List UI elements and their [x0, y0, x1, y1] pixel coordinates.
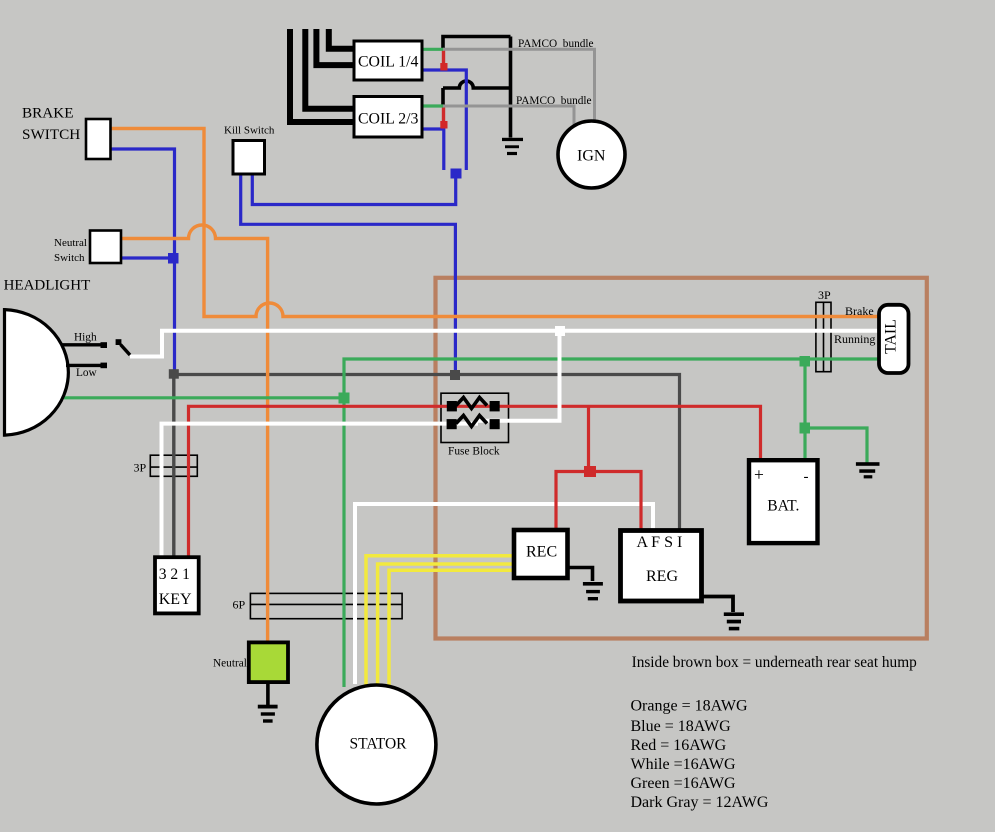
brown box (rear seat hump) — [436, 278, 927, 639]
black wire coil2 junction to ground rail (with hump over blue) — [443, 81, 511, 106]
wire yellow 3 — [389, 570, 515, 686]
connector 3P (key) — [150, 455, 197, 476]
coil 2/3 box — [354, 97, 422, 138]
junction white — [555, 326, 565, 336]
wire blue coil1 — [422, 70, 466, 170]
svg-text:BAT.: BAT. — [767, 497, 799, 514]
svg-text:Green =16AWG: Green =16AWG — [631, 775, 736, 792]
wire white headlight switch to tail — [130, 331, 878, 357]
svg-text:Dark Gray = 12AWG: Dark Gray = 12AWG — [631, 794, 769, 811]
REG ground — [701, 597, 734, 613]
wire dark gray down to key — [172, 375, 175, 559]
IGN circle — [558, 121, 625, 188]
junction dark gray (headlight) — [169, 369, 179, 379]
junction red stub coil2 — [440, 121, 447, 129]
svg-text:3P: 3P — [134, 461, 147, 475]
svg-text:REC: REC — [526, 543, 557, 560]
wire blue kill switch left pin down — [241, 174, 456, 372]
wire orange brake switch long (hump over neutral vertical) — [110, 129, 878, 317]
svg-text:+: + — [754, 465, 764, 485]
svg-text:High: High — [74, 332, 97, 344]
headlight high pin — [62, 343, 101, 346]
red stub coil2 — [442, 107, 445, 122]
svg-text:BRAKE: BRAKE — [22, 105, 73, 122]
svg-text:COIL 1/4: COIL 1/4 — [358, 54, 419, 71]
svg-text:Blue = 18AWG: Blue = 18AWG — [631, 718, 732, 735]
fuse block internals — [447, 398, 500, 430]
wire dark gray horizontal (headlight to AFSI) — [174, 375, 680, 532]
wire green tail branch down to battery — [803, 359, 806, 461]
Neutral green box — [249, 642, 288, 682]
svg-text:COIL 2/3: COIL 2/3 — [358, 111, 419, 128]
STATOR circle — [317, 685, 436, 804]
wire blue neutral switch — [121, 256, 170, 259]
brake switch box — [86, 119, 111, 159]
svg-text:SWITCH: SWITCH — [22, 126, 80, 143]
svg-text:Low: Low — [76, 367, 98, 379]
black coil feed wire 4 (to coil 1/4 upper) — [329, 29, 354, 49]
svg-text:Red = 16AWG: Red = 16AWG — [631, 737, 727, 754]
wire green coil2 stub — [422, 104, 444, 107]
svg-text:Kill Switch: Kill Switch — [224, 125, 275, 137]
junction green (ground branch) — [800, 423, 811, 434]
red stub coil1 — [442, 50, 445, 64]
svg-text:PAMCO bundle: PAMCO bundle — [518, 38, 594, 50]
neutral switch box — [90, 231, 121, 264]
svg-text:Inside brown box = underneath: Inside brown box = underneath rear seat … — [632, 654, 918, 671]
svg-text:Fuse Block: Fuse Block — [448, 446, 500, 458]
AFSI REG box — [621, 531, 702, 602]
junction blue (brake/neutral) — [168, 253, 179, 264]
wire blue junction to kill switch right pin — [252, 174, 455, 205]
wire red junction to REG — [594, 472, 641, 532]
wire gray pamco 1 — [443, 49, 595, 122]
svg-text:PAMCO bundle: PAMCO bundle — [516, 95, 592, 107]
ground (coils) — [502, 138, 523, 155]
junction green (tail) — [800, 356, 811, 367]
REC ground — [568, 568, 593, 582]
connector 3P (tail) — [816, 302, 831, 371]
svg-text:KEY: KEY — [159, 591, 192, 608]
svg-text:Running: Running — [834, 332, 875, 346]
svg-text:IGN: IGN — [577, 148, 606, 165]
svg-text:3P: 3P — [818, 288, 831, 302]
svg-text:TAIL: TAIL — [883, 319, 900, 354]
wire green down to stator — [342, 398, 345, 687]
neutral box ground — [266, 683, 270, 706]
svg-text:6P: 6P — [233, 598, 246, 612]
headlight low pin — [66, 364, 101, 367]
junction red (REC/REG) — [584, 466, 596, 477]
wire orange neutral switch (hump over brake vertical) — [121, 225, 268, 643]
black coil feed wire 2 (to coil 2/3 upper) — [305, 29, 354, 109]
wire white stator to REG — [355, 504, 653, 684]
wire white junction drop to fuse block — [478, 333, 560, 421]
black ground rail vertical — [509, 37, 513, 138]
BAT box — [749, 460, 818, 543]
headlight shape — [5, 310, 69, 436]
black coil feed wire 3 (to coil 1/4 lower) — [316, 29, 354, 65]
coil 1/4 box — [354, 41, 422, 80]
svg-text:Switch: Switch — [54, 252, 85, 264]
KEY box — [155, 557, 199, 613]
connector 6P — [250, 593, 402, 618]
svg-text:3 2 1: 3 2 1 — [159, 566, 190, 583]
black wire coil1 junction to ground rail — [443, 37, 511, 51]
svg-text:HEADLIGHT: HEADLIGHT — [4, 278, 91, 294]
wire blue coil2 — [422, 129, 444, 170]
wire red junction to REC — [556, 472, 586, 532]
wire green headlight — [64, 396, 344, 399]
svg-text:Orange = 18AWG: Orange = 18AWG — [631, 698, 748, 715]
svg-text:Brake: Brake — [845, 304, 874, 318]
fuse block outline — [441, 393, 509, 442]
svg-text:A F S I: A F S I — [637, 534, 683, 551]
wire green to right ground — [805, 428, 867, 464]
kill switch box — [233, 141, 265, 175]
wire red key through fuse block to battery — [189, 406, 761, 558]
wire yellow 1 — [366, 556, 515, 686]
junction green (headlight) — [339, 393, 350, 404]
wire green coil1 stub — [422, 48, 444, 51]
svg-text:Neutral: Neutral — [54, 237, 87, 249]
junction blue (coil wires) — [451, 169, 462, 179]
wire blue brake switch — [110, 149, 175, 371]
black coil feed wire 1 (to coil 2/3 lower) — [290, 29, 354, 122]
dimmer switch lever — [116, 339, 122, 345]
junction red stub coil1 — [440, 63, 447, 71]
wire red drop to REC/REG junction — [587, 406, 590, 468]
wire gray pamco 2 — [443, 106, 574, 127]
svg-text:-: - — [804, 469, 809, 485]
svg-text:REG: REG — [646, 568, 678, 585]
svg-text:While =16AWG: While =16AWG — [631, 756, 736, 773]
TAIL box — [879, 305, 909, 373]
wire green up-and-right to tail — [344, 359, 878, 396]
wire white fuse block to key — [162, 424, 479, 558]
junction dark gray (kill switch blue end) — [450, 370, 460, 380]
svg-text:STATOR: STATOR — [349, 736, 407, 753]
wire yellow 2 — [378, 564, 515, 685]
svg-text:Neutral: Neutral — [213, 658, 247, 670]
REC box — [514, 530, 568, 578]
ground (tail/battery green) — [856, 462, 880, 478]
